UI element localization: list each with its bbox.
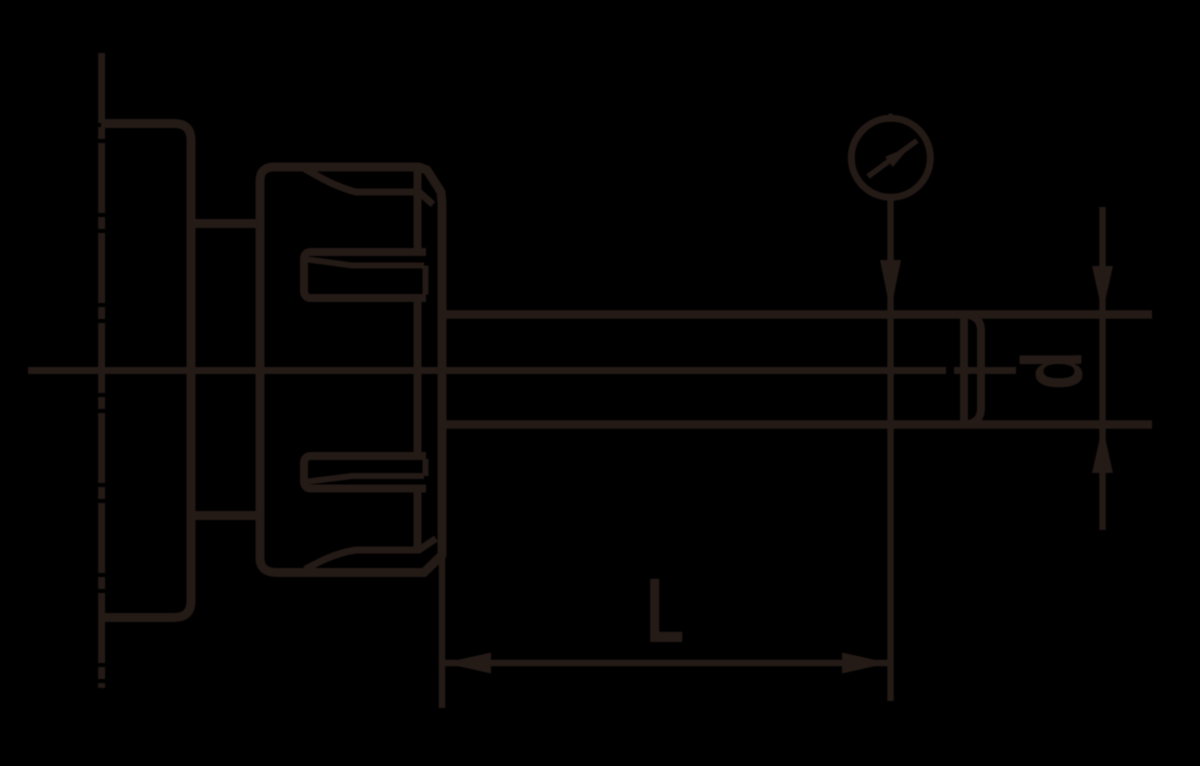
nut front face edge upper (414, 170, 422, 249)
lower slot inner slant (308, 476, 424, 482)
lower wrench slot (304, 456, 426, 489)
horizontal centerline (28, 367, 1016, 374)
L arrow right (842, 653, 889, 674)
dial indicator circle (851, 118, 930, 197)
L dimension line (443, 660, 890, 667)
svg-text:d: d (1005, 351, 1100, 390)
nut front face edge middle (414, 300, 422, 453)
neck top line (191, 219, 262, 228)
needle arrowhead (885, 147, 910, 168)
upper slot right wall (423, 266, 429, 295)
svg-text:L: L (646, 559, 684, 662)
shaft bottom edge with extension (443, 420, 1152, 429)
indicator stem / right extension line (887, 198, 894, 702)
shaft top edge with extension (443, 310, 1152, 319)
flange outline (101, 124, 191, 618)
neck bottom line (191, 511, 262, 520)
lower slot right wall (423, 459, 429, 476)
collet nut outline (260, 167, 442, 573)
shaft rounded tip (966, 315, 981, 425)
vertical centerline (98, 53, 105, 688)
indicator needle (868, 141, 917, 177)
L left extension line (439, 530, 446, 708)
nose silhouette top (305, 169, 433, 205)
L arrow left (444, 653, 491, 674)
nut front face edge lower (414, 491, 422, 551)
d dimension line (1099, 207, 1106, 530)
d arrow down (1092, 266, 1113, 313)
upper wrench slot (304, 252, 426, 298)
nose silhouette bottom (305, 539, 436, 570)
circle top nub (889, 114, 893, 122)
d arrow up (1092, 426, 1113, 473)
shaft end face (960, 315, 968, 425)
indicator arrow down (880, 260, 901, 312)
upper slot inner slant (308, 260, 424, 266)
